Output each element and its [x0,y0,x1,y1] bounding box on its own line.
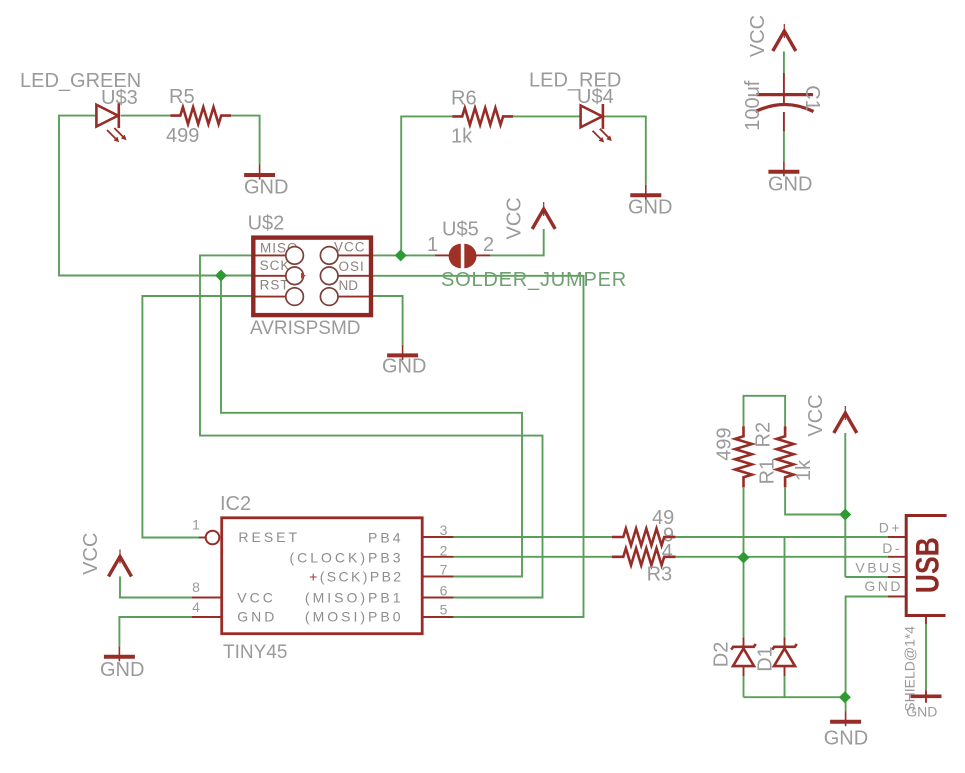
svg-text:(MISO)PB1: (MISO)PB1 [305,590,404,606]
svg-text:(CLOCK)PB3: (CLOCK)PB3 [289,550,403,566]
svg-text:OSI: OSI [339,259,365,274]
svg-text:+(SCK)PB2: +(SCK)PB2 [309,569,403,585]
svg-text:RESET: RESET [238,529,300,545]
svg-text:SCK: SCK [260,258,291,273]
svg-text:USB: USB [909,537,945,593]
svg-text:499: 499 [166,125,199,147]
svg-text:VCC: VCC [747,15,769,57]
svg-text:1: 1 [192,516,200,532]
svg-text:GND: GND [100,659,144,681]
svg-text:SOLDER_JUMPER: SOLDER_JUMPER [441,269,627,291]
svg-text:VCC: VCC [334,240,366,255]
svg-text:ND: ND [339,278,359,293]
svg-text:6: 6 [440,582,448,598]
svg-text:3: 3 [440,522,448,538]
svg-text:1k: 1k [793,459,815,481]
svg-text:U$3: U$3 [101,87,138,109]
svg-text:VCC: VCC [80,533,102,575]
svg-text:RST: RST [260,278,290,293]
svg-text:TINY45: TINY45 [223,642,287,663]
svg-text:R6: R6 [451,88,477,110]
svg-text:49: 49 [652,507,674,529]
svg-text:100uf: 100uf [742,80,764,130]
svg-text:5: 5 [440,602,448,618]
svg-text:D2: D2 [711,642,733,668]
svg-text:D-: D- [882,540,902,556]
svg-text:SHIELD@1*4: SHIELD@1*4 [901,626,917,712]
svg-text:2: 2 [483,234,494,256]
svg-text:GND: GND [382,356,426,378]
svg-text:R2: R2 [752,422,774,448]
svg-text:8: 8 [192,579,200,595]
svg-text:7: 7 [440,562,448,578]
svg-text:R1: R1 [756,459,778,485]
svg-text:U$4: U$4 [577,86,614,108]
svg-text:(MOSI)PB0: (MOSI)PB0 [305,609,404,625]
svg-text:2: 2 [440,543,448,559]
svg-text:4: 4 [192,599,200,615]
svg-text:GND: GND [864,578,903,594]
svg-text:GND: GND [244,177,288,199]
svg-text:GND: GND [237,609,277,625]
svg-text:D+: D+ [879,520,902,536]
svg-text:GND: GND [824,728,868,750]
svg-text:VCC: VCC [805,394,827,436]
svg-text:1: 1 [427,234,438,256]
svg-text:VBUS: VBUS [855,560,903,576]
svg-text:VCC: VCC [504,197,526,239]
svg-text:R5: R5 [169,86,195,108]
svg-text:PB4: PB4 [368,529,403,545]
svg-text:U$2: U$2 [248,213,285,235]
svg-text:U$5: U$5 [442,219,479,241]
svg-text:VCC: VCC [237,590,276,606]
svg-text:499: 499 [713,427,735,460]
svg-text:IC2: IC2 [220,493,251,515]
svg-text:1k: 1k [451,126,473,148]
svg-text:R3: R3 [647,564,673,586]
svg-text:GND: GND [768,173,812,195]
svg-text:GND: GND [628,197,672,219]
svg-text:C1: C1 [801,85,823,111]
svg-text:D1: D1 [755,646,777,672]
svg-text:AVRISPSMD: AVRISPSMD [250,318,361,339]
